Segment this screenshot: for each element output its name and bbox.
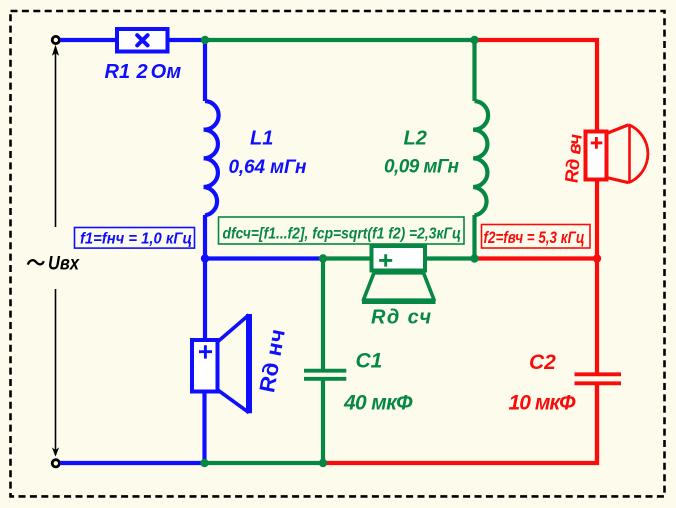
- annotation box f1: [75, 228, 195, 249]
- wire resistor to node A: [168, 38, 208, 42]
- svg-text:dfсч=[f1...f2], fср=sqrt(f1 f2: dfсч=[f1...f2], fср=sqrt(f1 f2) =2,3кГц: [223, 226, 462, 243]
- wire middle green node B to node C: [323, 256, 475, 260]
- speaker Rд сч: [362, 246, 436, 301]
- node A bottom junction: [200, 459, 208, 467]
- wire speaker Rд вч to node D: [595, 179, 599, 261]
- capacitor C1: [304, 256, 346, 463]
- svg-text:0,09 мГн: 0,09 мГн: [384, 157, 460, 178]
- wire bottom red node B2 to right corner: [323, 385, 597, 463]
- node C mid junction: [470, 254, 478, 262]
- node C junction: [470, 36, 478, 44]
- svg-text:C1: C1: [356, 350, 383, 373]
- node A junction: [201, 36, 209, 44]
- speaker Rд нч: [192, 314, 249, 413]
- speaker Rд вч: [586, 125, 648, 184]
- wire top red node C to corner: [475, 40, 598, 132]
- svg-text:f2=fвч = 5,3 кГц: f2=fвч = 5,3 кГц: [484, 229, 585, 247]
- svg-text:10 мкФ: 10 мкФ: [509, 391, 577, 414]
- terminal IN top: [52, 36, 59, 43]
- terminal IN bottom: [52, 460, 59, 467]
- inductor L2: [473, 38, 488, 260]
- node B bottom junction: [319, 459, 327, 467]
- svg-text:L2: L2: [404, 128, 427, 150]
- node B junction: [319, 254, 327, 262]
- wire bottom green node A2 to node B2: [205, 461, 324, 465]
- svg-text:40 мкФ: 40 мкФ: [343, 391, 413, 414]
- wire middle red node C to node D: [475, 256, 598, 260]
- svg-text:C2: C2: [529, 351, 556, 374]
- annotation box f2: [482, 225, 591, 249]
- wire bottom blue terminal to node A2: [60, 461, 205, 465]
- label ~Uвх: [28, 252, 80, 274]
- node A mid junction: [201, 254, 209, 262]
- svg-text:Uвх: Uвх: [48, 252, 80, 274]
- wire top green node A to node C: [205, 38, 475, 42]
- svg-text:Rд вч: Rд вч: [561, 134, 586, 183]
- voltage arrow Uвх: [52, 45, 59, 457]
- inductor L1: [204, 38, 219, 260]
- wire speaker to bottom rail: [202, 391, 206, 463]
- wire node A down to speaker: [203, 256, 207, 341]
- wire middle blue node A to node B: [205, 256, 323, 260]
- node D junction: [593, 254, 601, 262]
- svg-text:Rд сч: Rд сч: [371, 306, 431, 328]
- svg-text:f1=fнч = 1,0 кГц: f1=fнч = 1,0 кГц: [80, 230, 192, 247]
- annotation box dfсч: [219, 217, 465, 244]
- svg-text:0,64 мГн: 0,64 мГн: [229, 157, 308, 178]
- resistor R1: [117, 29, 168, 52]
- wire top-left blue: [60, 38, 117, 42]
- svg-text:R12Ом: R12Ом: [105, 61, 182, 83]
- capacitor C2: [575, 257, 622, 466]
- svg-text:L1: L1: [250, 128, 273, 150]
